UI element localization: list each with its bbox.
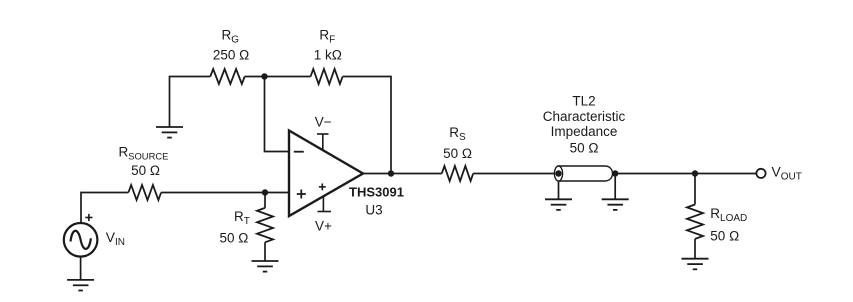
ground (RG left) [156,127,183,138]
wire: node G down to inverting input [265,77,290,152]
svg-text:RF: RF [319,27,335,45]
wire: TL2 right to ground [614,174,616,200]
ground (VIN) [67,280,94,291]
ground (RLOAD) [682,259,709,270]
wire: TL2 right to VOUT [613,173,757,175]
node T (RT junction) [262,189,268,195]
transmission line TL2 left ellipse [554,166,562,181]
wire: RG to node G [245,76,265,78]
transmission line TL2 body [559,166,613,181]
svg-text:Characteristic: Characteristic [543,109,626,124]
resistor RSOURCE [128,185,161,200]
svg-text:250 Ω: 250 Ω [213,47,249,62]
node G (RG/RF/inverting junction) [261,73,267,79]
svg-text:50 Ω: 50 Ω [570,140,599,155]
svg-text:50 Ω: 50 Ω [131,163,160,178]
svg-text:RS: RS [449,125,466,143]
op-amp V+ supply pin [318,197,332,212]
ground (TL2 left) [545,199,572,210]
node TL2 left [555,170,561,176]
svg-text:RLOAD: RLOAD [710,206,747,224]
node L (RLOAD junction) [692,170,698,176]
op-amp inverting minus symbol [294,151,304,153]
svg-text:50 Ω: 50 Ω [219,230,248,245]
source VIN [64,223,98,257]
wire: RT to ground [264,242,266,261]
wire: RSOURCE to noninverting input [161,192,289,194]
svg-text:RG: RG [222,27,240,45]
resistor RS [442,166,473,181]
op-amp U1 triangle [289,131,363,217]
ground (TL2 right) [602,199,629,210]
svg-text:VIN: VIN [106,230,125,248]
wire: VIN bottom to ground [80,257,82,280]
wire: ground to RG [170,77,211,128]
resistor RLOAD [687,205,703,239]
VIN polarity plus [85,214,92,221]
op-amp V- supply pin [317,134,329,151]
svg-text:V−: V− [315,115,332,130]
wire: RS to TL2 [473,173,554,175]
node TL2 right [612,170,618,176]
svg-text:RSOURCE: RSOURCE [119,145,169,162]
svg-text:THS3091: THS3091 [349,184,404,199]
wire: TL2 left shield to ground [558,181,560,199]
ground (RT) [252,261,279,272]
wire: RF to output node [343,77,391,174]
svg-text:TL2: TL2 [572,93,595,108]
svg-text:V+: V+ [315,218,332,233]
resistor RF [311,69,343,84]
wire: RLOAD to ground [694,239,696,259]
op-amp noninverting plus symbol [297,190,306,199]
node F (feedback junction on output) [388,170,394,176]
svg-text:1 kΩ: 1 kΩ [314,47,342,62]
op-amp V+ supply plus symbol [319,184,326,191]
svg-text:U3: U3 [365,202,382,217]
svg-text:Impedance: Impedance [551,124,618,139]
wire: VIN top to input net [81,193,128,224]
wire: node G to RF [265,76,311,78]
terminal VOUT [756,169,765,178]
svg-text:RT: RT [234,209,250,227]
resistor RT [257,208,273,242]
wire: op-amp output to RS [363,173,442,175]
wire: node T to RT [264,193,266,208]
wire: node L to RLOAD [694,174,696,205]
resistor RG [210,69,244,84]
svg-text:50 Ω: 50 Ω [710,228,739,243]
svg-text:50 Ω: 50 Ω [443,146,472,161]
svg-text:VOUT: VOUT [772,165,802,183]
